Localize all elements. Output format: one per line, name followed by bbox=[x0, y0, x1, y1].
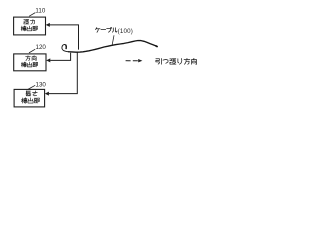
cable curled left end: thin C arc bbox=[62, 45, 69, 52]
svg-text:110: 110 bbox=[35, 8, 45, 15]
box 120 text line1 方向 bbox=[26, 56, 31, 61]
box 130 text line1 長さ bbox=[26, 91, 31, 96]
box 130 text line2 検出部 bbox=[22, 98, 28, 103]
wire from cable to box 110 bbox=[49, 25, 78, 50]
box 120 text line2 検出部 bbox=[21, 62, 26, 67]
cable right end blob bbox=[156, 45, 157, 48]
wire from cable to box 120 bbox=[50, 53, 70, 61]
svg-text:130: 130 bbox=[36, 81, 47, 88]
box: length detector 130 bbox=[14, 89, 44, 107]
cable end thick tip stroke bbox=[65, 45, 67, 48]
leader line 130 bbox=[28, 85, 35, 89]
box: direction detector 120 bbox=[14, 54, 46, 71]
wire from cable to box 130 bbox=[49, 52, 78, 94]
label text ケーブル bbox=[96, 28, 100, 33]
leader line 110 bbox=[29, 13, 35, 17]
leader line for cable label bbox=[112, 35, 114, 45]
svg-text:120: 120 bbox=[36, 44, 47, 51]
leader line 120 bbox=[29, 49, 35, 53]
pulling direction arrow bbox=[126, 60, 139, 62]
label: pulling direction bbox=[156, 58, 162, 64]
svg-text:(100): (100) bbox=[118, 28, 133, 35]
arrowhead into box 130 bbox=[45, 92, 49, 96]
box 110 text line2 検出部 bbox=[21, 26, 26, 31]
box 110 text line1 張力 bbox=[24, 20, 29, 24]
cable 100 main curve bbox=[69, 41, 158, 53]
arrowhead into box 110 bbox=[46, 23, 50, 27]
arrowhead into box 120 bbox=[46, 58, 50, 62]
box: tension detector 110 bbox=[14, 17, 46, 35]
